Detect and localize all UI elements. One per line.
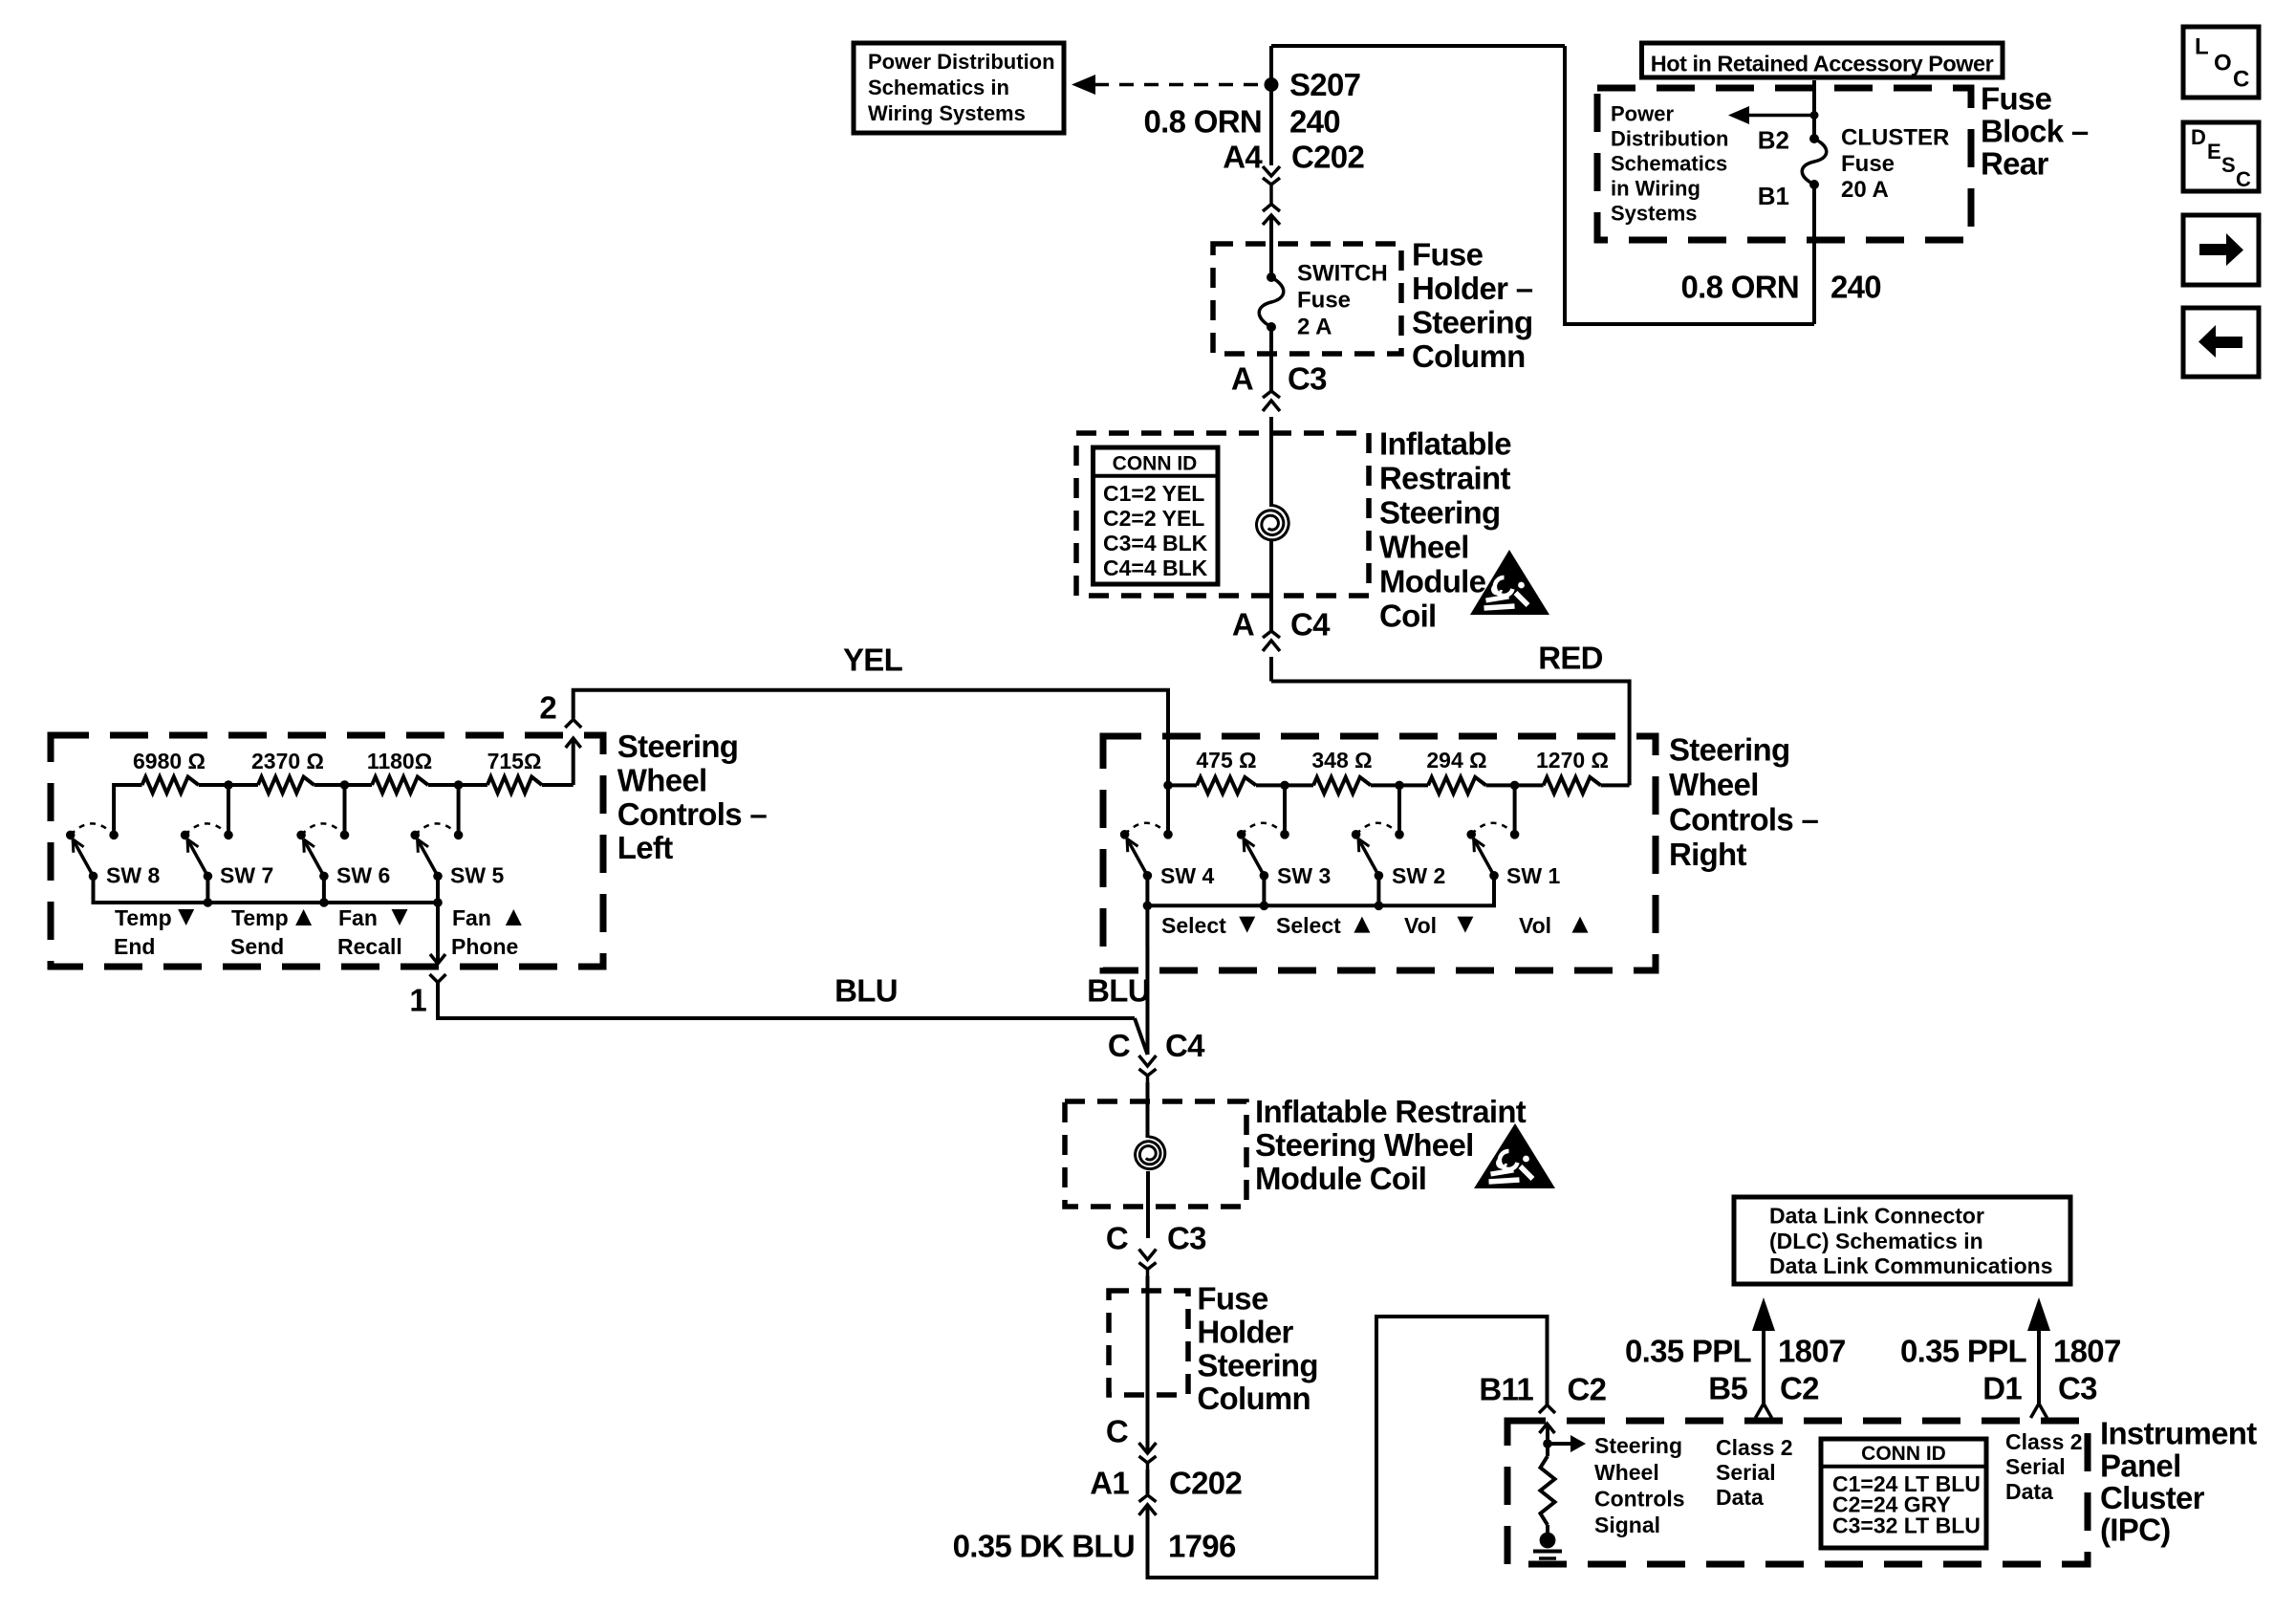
svg-text:Fuse: Fuse [1981,81,2052,117]
svg-text:SW 2: SW 2 [1392,863,1445,888]
svg-text:(IPC): (IPC) [2100,1513,2171,1548]
svg-text:Vol: Vol [1519,913,1551,938]
svg-text:SW 6: SW 6 [336,863,390,888]
svg-text:Fan: Fan [338,905,378,930]
svg-text:C202: C202 [1291,139,1364,174]
svg-text:B2: B2 [1758,126,1789,155]
svg-text:A: A [1232,607,1254,642]
svg-text:Fuse: Fuse [1297,288,1351,314]
svg-text:1180Ω: 1180Ω [367,749,432,773]
svg-text:Left: Left [617,830,673,865]
instrument panel cluster box [1507,1421,2088,1564]
reference box: Hot in Retained Accessory Power [1642,43,2004,77]
svg-text:C4=4 BLK: C4=4 BLK [1103,555,1208,580]
svg-text:240: 240 [1289,104,1340,140]
svg-text:D: D [2191,125,2206,149]
node D (YEL-475) [1163,781,1197,835]
wire: B1 down [1812,185,1816,324]
svg-text:S207: S207 [1289,67,1360,102]
switch SW3 [1237,823,1331,888]
resistor 475 ohm [1196,748,1256,794]
svg-text:Controls: Controls [1594,1486,1685,1511]
svg-text:Fuse: Fuse [1412,237,1484,272]
wire: right box output [1145,905,1149,1055]
fuse CLUSTER 20A [1758,125,1950,211]
terminal 2 [539,690,581,748]
svg-text:2 A: 2 A [1297,315,1332,340]
svg-text:Module Coil: Module Coil [1255,1161,1426,1196]
svg-text:Schematics in: Schematics in [868,76,1009,99]
switch function labels left [114,905,522,959]
switch SW1 [1466,823,1560,888]
svg-text:0.8 ORN: 0.8 ORN [1144,104,1262,140]
svg-text:E: E [2207,140,2221,163]
svg-text:Data Link Communications: Data Link Communications [1769,1253,2052,1278]
wire BLU [438,973,1150,1055]
label Fuse Holder - Steering Column [1412,237,1533,375]
terminal B11 [1479,1372,1606,1433]
svg-text:O: O [2214,51,2232,76]
svg-text:Vol: Vol [1404,913,1437,938]
switch SW7 [181,823,273,887]
svg-text:Block –: Block – [1981,114,2089,149]
wire: C to C202 lower [1146,1469,1150,1494]
svg-text:Steering: Steering [1197,1347,1317,1382]
svg-text:0.8 ORN: 0.8 ORN [1681,270,1799,305]
switch SW6 [296,823,390,887]
label Fuse Block - Rear [1981,81,2089,182]
svg-text:Signal: Signal [1594,1513,1660,1537]
svg-text:SW 5: SW 5 [450,863,504,888]
svg-text:SW 1: SW 1 [1506,863,1560,888]
svg-text:Class 2: Class 2 [1716,1435,1793,1460]
node G (294-1270) [1486,781,1544,835]
svg-text:Module: Module [1379,563,1486,599]
svg-text:C3=4 BLK: C3=4 BLK [1103,531,1208,555]
svg-text:YEL: YEL [843,642,903,678]
svg-text:Steering: Steering [1412,305,1532,340]
svg-text:Column: Column [1197,1381,1310,1416]
nav box forward arrow [2183,215,2259,285]
svg-text:1: 1 [409,983,426,1018]
wire: coil to box bottom [1269,541,1273,596]
svg-text:Distribution: Distribution [1611,126,1728,150]
svg-text:Steering: Steering [1379,494,1500,530]
wire: C202 to fuse holder [1269,215,1273,277]
svg-text:1807: 1807 [1778,1334,1846,1369]
svg-text:Hot in Retained Accessory Powe: Hot in Retained Accessory Power [1651,52,1994,76]
svg-text:C3: C3 [1167,1221,1206,1256]
connector C202 pin A1 (lower) [1090,1466,1242,1515]
wire: B5 class 2 serial data to DLC [1625,1297,1846,1404]
svg-text:Wiring Systems: Wiring Systems [868,101,1026,125]
svg-text:B1: B1 [1758,182,1789,210]
svg-text:C3: C3 [1288,361,1327,397]
svg-text:0.35 DK BLU: 0.35 DK BLU [953,1529,1135,1564]
switch SW2 [1352,823,1445,888]
label Inflatable Restraint Steering Wheel Module Coil (lower) [1255,1094,1527,1196]
svg-text:348 Ω: 348 Ω [1311,748,1372,773]
wire: A1 C202 to IPC B11 [1148,1317,1548,1578]
svg-text:Wheel: Wheel [1594,1460,1659,1485]
wire RED [1271,641,1630,786]
svg-text:C: C [1106,1221,1128,1256]
svg-text:Data Link Connector: Data Link Connector [1769,1204,1984,1229]
svg-text:Serial: Serial [2005,1454,2066,1479]
svg-text:Inflatable Restraint: Inflatable Restraint [1255,1094,1527,1129]
svg-text:A: A [1231,361,1253,397]
CONN ID table (IPC) [1821,1439,1986,1548]
label Steering Wheel Controls - Right [1669,731,1819,872]
svg-text:A1: A1 [1090,1466,1129,1501]
svg-text:C2: C2 [1780,1371,1819,1406]
svg-text:(DLC) Schematics in: (DLC) Schematics in [1769,1229,1983,1253]
wire: C4 to RED/YEL junction [1269,657,1273,682]
nav box back arrow [2183,308,2259,377]
svg-text:2370 Ω: 2370 Ω [251,749,324,773]
reference box: Power Distribution Schematics in Wiring Systems [854,43,1064,133]
svg-text:1796: 1796 [1168,1529,1236,1564]
splice arrow to power distribution schematics (fuse block) [1728,106,1819,124]
wire: C3 to coil box [1269,417,1273,507]
svg-text:Controls –: Controls – [617,796,768,832]
svg-text:BLU: BLU [1087,973,1150,1009]
resistor 1180 ohm [367,749,432,794]
svg-text:Fan: Fan [452,905,491,930]
terminal 1 [409,903,445,1018]
IPC steering wheel controls signal input [1543,1424,1684,1537]
svg-text:C202: C202 [1169,1466,1242,1501]
svg-text:Temp: Temp [231,905,289,930]
nav box DESC [2183,122,2259,191]
wire: fuse holder 2 out [1146,1395,1150,1452]
wire label 0.8 ORN 240 (circuit 240 upper) [1144,104,1340,140]
svg-text:Wheel: Wheel [1669,767,1759,802]
resistor 715 ohm [487,749,542,794]
svg-text:C: C [2233,67,2249,93]
svg-text:Systems: Systems [1611,202,1698,226]
svg-text:Wheel: Wheel [1379,529,1469,564]
IPC ground [1533,1525,1562,1565]
svg-text:Steering: Steering [1669,731,1789,767]
svg-text:Restraint: Restraint [1379,460,1510,495]
connector C3 pin A [1231,361,1327,411]
connector C202 pin A4 (upper) [1223,139,1364,225]
label Fuse Holder Steering Column (lower) [1197,1281,1317,1416]
svg-text:SWITCH: SWITCH [1297,261,1388,287]
svg-text:Fuse: Fuse [1841,151,1895,177]
svg-text:Data: Data [2005,1479,2053,1504]
svg-text:Steering: Steering [1594,1433,1682,1458]
svg-text:End: End [114,934,155,959]
svg-text:C: C [1106,1414,1128,1449]
steering wheel controls left box [51,735,603,967]
svg-text:L: L [2195,34,2209,60]
svg-text:Class 2: Class 2 [2005,1429,2083,1454]
svg-text:Recall: Recall [337,934,402,959]
svg-text:2: 2 [539,690,556,726]
svg-text:Wheel: Wheel [617,763,707,798]
svg-text:in Wiring: in Wiring [1611,177,1700,201]
splice S207 [1265,67,1361,102]
svg-text:SW 7: SW 7 [220,863,273,888]
coil module box (upper) [1076,433,1369,596]
svg-text:6980 Ω: 6980 Ω [133,749,206,773]
svg-text:Holder: Holder [1197,1315,1293,1350]
svg-text:Instrument: Instrument [2100,1416,2257,1451]
svg-text:294 Ω: 294 Ω [1426,748,1486,773]
wire label 0.8 ORN 240 (circuit 240 lower) [1681,270,1881,305]
node F (348-294) [1371,781,1428,835]
svg-text:240: 240 [1830,270,1881,305]
label class 2 serial data (left) [1716,1435,1793,1510]
label Steering Wheel Controls - Left [617,729,768,865]
svg-text:1807: 1807 [2053,1334,2121,1369]
connector C4 pin C [1108,1028,1205,1082]
svg-text:Select: Select [1161,913,1226,938]
svg-text:Power: Power [1611,101,1674,125]
svg-text:SW 8: SW 8 [106,863,160,888]
fuse block rear box [1597,88,1971,240]
svg-text:Column: Column [1412,338,1526,374]
resistor 348 ohm [1311,748,1372,794]
svg-text:A4: A4 [1223,139,1263,174]
svg-text:Serial: Serial [1716,1460,1776,1485]
svg-text:C1=2 YEL: C1=2 YEL [1103,481,1204,506]
svg-text:Steering: Steering [617,729,738,764]
wire: fuse to connector C3 [1269,327,1273,391]
wire: hot feed into fuse block [1812,80,1816,139]
svg-text:C: C [2236,167,2251,191]
svg-text:S: S [2221,153,2236,177]
svg-text:RED: RED [1538,641,1603,676]
terminal D1 [1982,1371,2097,1418]
label Instrument Panel Cluster IPC [2100,1416,2257,1548]
svg-text:Fuse: Fuse [1197,1281,1268,1317]
svg-text:CONN ID: CONN ID [1113,452,1198,474]
svg-text:SW 4: SW 4 [1160,863,1214,888]
svg-text:Coil: Coil [1379,598,1437,633]
svg-text:C2: C2 [1568,1372,1607,1407]
dashed arrow to Power Distribution Schematics [1072,75,1264,95]
node A (6980-2370) [199,780,258,835]
svg-text:C4: C4 [1165,1028,1205,1063]
resistor 2370 ohm [251,749,324,794]
label power distribution schematics (fuse block) [1611,101,1728,225]
svg-text:C4: C4 [1290,607,1331,642]
wire: 6980 left end to SW8 [114,785,142,835]
resistor 294 ohm [1426,748,1486,794]
svg-text:Schematics: Schematics [1611,152,1727,176]
coil module box (lower) [1065,1101,1246,1207]
svg-text:Send: Send [230,934,284,959]
wire: terminal 2 to resistor chain [542,738,574,785]
svg-text:Cluster: Cluster [2100,1480,2205,1515]
svg-text:Steering Wheel: Steering Wheel [1255,1127,1474,1163]
terminal B5 [1708,1371,1819,1418]
label Inflatable Restraint Steering Wheel Module Coil (upper) [1379,425,1511,633]
wire label 0.35 DK BLU 1796 [953,1529,1236,1564]
svg-text:Panel: Panel [2100,1448,2181,1483]
svg-text:Select: Select [1276,913,1341,938]
resistor 6980 ohm [133,749,206,794]
svg-text:20 A: 20 A [1841,177,1889,203]
svg-text:475 Ω: 475 Ω [1196,748,1256,773]
CONN ID table (coil) [1094,447,1219,584]
nav box LOC [2183,27,2259,98]
right box common bus [1143,876,1494,910]
SIR warning triangle (upper) [1470,550,1549,615]
connector C (steering column) [1106,1414,1157,1469]
svg-text:0.35 PPL: 0.35 PPL [1900,1334,2027,1369]
svg-text:Controls –: Controls – [1669,802,1819,838]
fuse SWITCH 2A [1259,261,1387,340]
svg-text:715Ω: 715Ω [487,749,542,773]
node E (475-348) [1256,781,1313,835]
wire: B1 to S207 feed loop [1271,46,1814,324]
svg-text:C2=2 YEL: C2=2 YEL [1103,506,1204,531]
svg-text:Power Distribution: Power Distribution [868,50,1055,74]
svg-text:1270 Ω: 1270 Ω [1536,748,1609,773]
resistor 1270 ohm [1536,748,1609,794]
svg-text:BLU: BLU [834,973,898,1009]
svg-text:Holder –: Holder – [1412,271,1533,306]
svg-text:Temp: Temp [115,905,172,930]
svg-text:0.35 PPL: 0.35 PPL [1625,1334,1752,1369]
svg-text:Inflatable: Inflatable [1379,425,1511,461]
svg-text:C3: C3 [2058,1371,2097,1406]
coil spiral (lower) [1136,1137,1165,1169]
svg-text:B11: B11 [1479,1372,1533,1407]
svg-text:Phone: Phone [451,934,518,959]
svg-text:C3=32 LT BLU: C3=32 LT BLU [1832,1513,1981,1537]
fuse holder box 2 (steering column) [1109,1291,1188,1395]
reference box: Data Link Connector DLC [1734,1197,2070,1284]
switch SW8 [66,823,161,887]
svg-text:CONN ID: CONN ID [1861,1443,1946,1465]
switch function labels right [1161,913,1589,938]
wire: C4 to coil box 2 [1146,1082,1150,1138]
IPC pull-up resistor [1541,1444,1555,1525]
steering wheel controls right box [1103,736,1656,970]
wire: coil 2 out [1146,1171,1150,1238]
node B (2370-1180) [314,780,373,835]
svg-text:CLUSTER: CLUSTER [1841,125,1949,151]
svg-text:D1: D1 [1982,1371,2022,1406]
svg-text:SW 3: SW 3 [1277,863,1331,888]
svg-text:C: C [1108,1028,1130,1063]
svg-text:Rear: Rear [1981,146,2048,182]
label class 2 serial data (right) [2005,1429,2083,1504]
connector C3 pin C [1106,1221,1206,1276]
wire: C3 to fuse holder 2 [1146,1276,1150,1396]
svg-text:B5: B5 [1708,1371,1747,1406]
node C (1180-715) [428,780,487,835]
wire: 1270 to RED corner [1601,783,1630,787]
wire YEL [574,642,1168,785]
svg-text:Data: Data [1716,1485,1764,1510]
coil spiral (upper) [1257,506,1289,540]
switch SW5 [410,823,504,887]
fuse holder box (steering column) [1213,244,1401,354]
left box common bus [94,876,443,906]
SIR warning triangle (lower) [1474,1123,1555,1188]
switch SW4 [1120,823,1215,888]
svg-text:Right: Right [1669,837,1747,872]
connector C4 pin A [1232,596,1331,651]
wire: D1 class 2 serial data to DLC [1900,1297,2121,1404]
